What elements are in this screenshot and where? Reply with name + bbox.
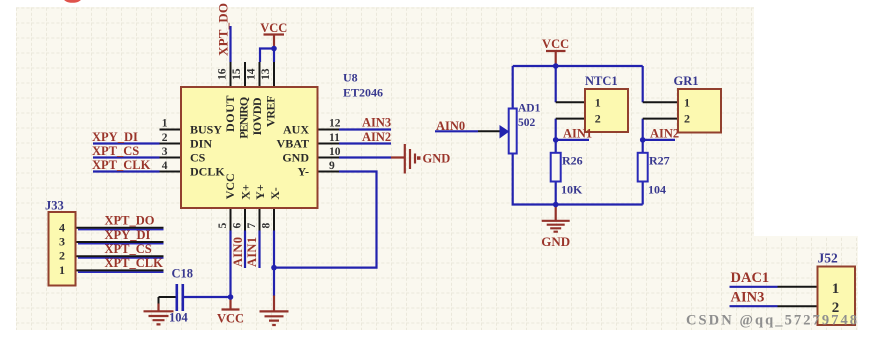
svg-text:C18: C18 (172, 267, 194, 281)
svg-text:6: 6 (232, 223, 244, 229)
svg-text:104: 104 (648, 183, 666, 197)
svg-text:13: 13 (260, 68, 272, 80)
svg-text:16: 16 (217, 68, 229, 80)
svg-text:4: 4 (59, 220, 65, 234)
svg-text:CSDN @qq_57279748: CSDN @qq_57279748 (686, 313, 857, 329)
svg-text:4: 4 (162, 160, 168, 172)
svg-text:AIN0: AIN0 (436, 119, 465, 133)
svg-text:DOUT: DOUT (223, 96, 237, 133)
svg-text:1: 1 (832, 281, 840, 297)
svg-text:14: 14 (246, 68, 258, 80)
svg-text:Y-: Y- (297, 165, 309, 179)
svg-text:3: 3 (162, 146, 168, 158)
svg-text:NTC1: NTC1 (585, 74, 618, 88)
svg-text:DIN: DIN (190, 137, 212, 151)
svg-text:XPT_CLK: XPT_CLK (105, 256, 164, 270)
svg-text:8: 8 (261, 223, 273, 229)
svg-text:X+: X+ (238, 184, 252, 200)
svg-text:AIN1: AIN1 (563, 126, 592, 140)
svg-text:R26: R26 (562, 154, 583, 168)
svg-text:10: 10 (329, 146, 341, 158)
svg-text:PENIRQ: PENIRQ (237, 97, 251, 139)
svg-text:2: 2 (59, 249, 65, 263)
svg-text:VBAT: VBAT (277, 137, 309, 151)
svg-text:VCC: VCC (217, 312, 244, 326)
svg-text:5: 5 (217, 223, 229, 229)
svg-text:AD1: AD1 (518, 103, 541, 115)
svg-text:GND: GND (541, 234, 570, 249)
svg-text:XPT_CS: XPT_CS (92, 144, 139, 158)
svg-text:XPY_DI: XPY_DI (105, 228, 151, 242)
svg-text:10K: 10K (561, 183, 583, 197)
svg-text:GR1: GR1 (674, 74, 699, 88)
svg-text:1: 1 (595, 96, 601, 110)
svg-text:7: 7 (246, 223, 258, 229)
svg-text:XPT_CLK: XPT_CLK (92, 158, 151, 172)
svg-text:AIN1: AIN1 (245, 237, 259, 267)
svg-text:DAC1: DAC1 (731, 270, 770, 286)
svg-text:2: 2 (595, 112, 601, 126)
svg-text:IOVDD: IOVDD (250, 97, 264, 135)
svg-text:Y+: Y+ (253, 184, 267, 200)
svg-text:BUSY: BUSY (190, 123, 222, 137)
svg-text:VCC: VCC (223, 173, 237, 199)
svg-text:R27: R27 (649, 154, 670, 168)
svg-text:DCLK: DCLK (190, 165, 225, 179)
svg-text:12: 12 (329, 118, 341, 130)
svg-text:CS: CS (190, 151, 206, 165)
svg-text:2: 2 (162, 132, 168, 144)
svg-text:XPY_DI: XPY_DI (92, 130, 138, 144)
svg-text:1: 1 (59, 263, 65, 277)
svg-text:XPT_DO: XPT_DO (105, 214, 155, 228)
svg-text:AUX: AUX (283, 123, 309, 137)
svg-text:502: 502 (518, 117, 536, 129)
svg-text:AIN2: AIN2 (362, 130, 391, 144)
svg-text:J52: J52 (818, 251, 839, 266)
svg-text:AIN3: AIN3 (731, 290, 765, 306)
svg-text:U8: U8 (343, 71, 358, 85)
svg-text:11: 11 (329, 132, 340, 144)
svg-text:15: 15 (231, 68, 243, 80)
svg-text:VCC: VCC (260, 21, 287, 35)
svg-text:AIN2: AIN2 (650, 126, 679, 140)
svg-text:XPT_DO: XPT_DO (216, 3, 231, 56)
svg-text:VREF: VREF (264, 96, 278, 128)
svg-text:3: 3 (59, 235, 65, 249)
svg-text:GND: GND (423, 151, 451, 165)
svg-text:AIN0: AIN0 (231, 237, 245, 267)
svg-text:XPT_CS: XPT_CS (105, 242, 152, 256)
svg-text:X-: X- (268, 187, 282, 200)
svg-text:1: 1 (684, 96, 690, 110)
svg-text:AIN3: AIN3 (362, 116, 391, 130)
svg-text:J33: J33 (45, 199, 64, 213)
svg-text:104: 104 (169, 311, 189, 325)
svg-text:1: 1 (162, 118, 168, 130)
svg-text:GND: GND (282, 151, 309, 165)
svg-text:VCC: VCC (542, 37, 569, 51)
svg-text:ET2046: ET2046 (343, 86, 383, 100)
svg-text:2: 2 (684, 112, 690, 126)
svg-text:9: 9 (329, 160, 335, 172)
